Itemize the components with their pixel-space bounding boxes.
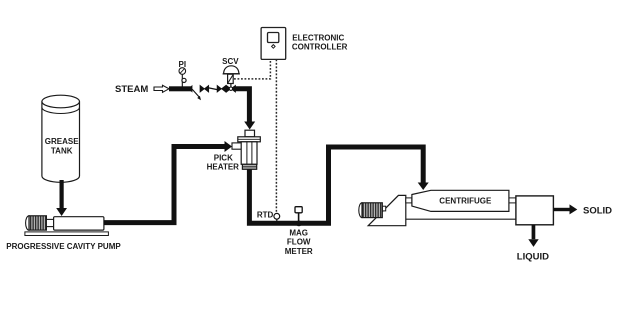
svg-text:HEATER: HEATER bbox=[207, 163, 240, 172]
svg-text:PICK: PICK bbox=[214, 153, 233, 162]
svg-text:CENTRIFUGE: CENTRIFUGE bbox=[439, 197, 492, 206]
svg-text:STEAM: STEAM bbox=[115, 84, 148, 95]
svg-text:METER: METER bbox=[285, 247, 313, 256]
svg-text:PROGRESSIVE CAVITY PUMP: PROGRESSIVE CAVITY PUMP bbox=[6, 242, 121, 251]
svg-text:PI: PI bbox=[179, 60, 187, 69]
svg-text:CONTROLLER: CONTROLLER bbox=[292, 43, 348, 52]
svg-text:SCV: SCV bbox=[222, 57, 239, 66]
svg-text:MAG: MAG bbox=[289, 228, 308, 237]
svg-text:SOLID: SOLID bbox=[583, 206, 612, 217]
svg-text:GREASE: GREASE bbox=[45, 137, 79, 146]
svg-text:LIQUID: LIQUID bbox=[517, 252, 549, 263]
svg-text:RTD: RTD bbox=[257, 210, 274, 219]
svg-text:FLOW: FLOW bbox=[287, 238, 311, 247]
svg-text:ELECTRONIC: ELECTRONIC bbox=[292, 33, 344, 42]
svg-text:TANK: TANK bbox=[51, 146, 73, 155]
